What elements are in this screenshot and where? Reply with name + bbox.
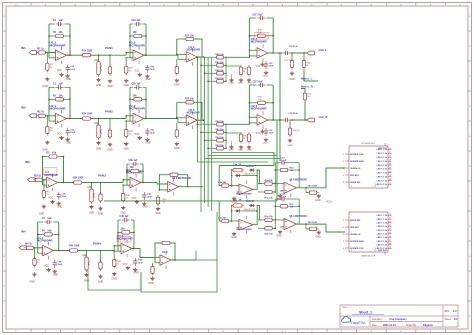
svg-text:10k: 10k [47, 230, 52, 233]
svg-text:C1F 10uF: C1F 10uF [252, 82, 263, 84]
svg-text:GND: GND [288, 145, 293, 147]
svg-text:Drawn By:: Drawn By: [406, 324, 417, 327]
svg-text:1uF: 1uF [59, 19, 64, 22]
svg-text:GND: GND [247, 150, 252, 152]
svg-text:10k: 10k [59, 31, 64, 34]
svg-text:10k: 10k [130, 166, 135, 169]
svg-text:GND: GND [155, 212, 161, 215]
svg-text:15: 15 [389, 167, 391, 169]
svg-text:LED 6 1.2k: LED 6 1.2k [377, 234, 388, 236]
svg-text:14: 14 [389, 229, 391, 231]
svg-text:PA1 10k: PA1 10k [216, 61, 225, 64]
svg-text:GND: GND [96, 84, 102, 87]
svg-text:MCP6004R: MCP6004R [187, 47, 201, 51]
svg-text:1k: 1k [308, 96, 310, 98]
svg-text:12: 12 [389, 221, 391, 223]
svg-text:PAN2: PAN2 [105, 110, 113, 114]
svg-text:2021-01-21: 2021-01-21 [383, 324, 396, 327]
svg-text:GND: GND [89, 212, 95, 215]
svg-text:VCC: VCC [122, 263, 127, 266]
svg-text:GND: GND [39, 213, 45, 216]
svg-text:3: 3 [343, 227, 344, 229]
svg-text:MCP6004R: MCP6004R [50, 107, 67, 111]
svg-text:U1.4 MCP6004R: U1.4 MCP6004R [290, 179, 308, 182]
svg-text:10uF: 10uF [150, 69, 156, 71]
svg-text:10uF: 10uF [269, 66, 275, 68]
svg-text:GND: GND [107, 149, 113, 152]
svg-text:U5.2 MCP6004R: U5.2 MCP6004R [236, 228, 252, 231]
svg-text:U3.3 MCP6004R: U3.3 MCP6004R [172, 177, 191, 180]
svg-text:2: 2 [53, 115, 54, 117]
svg-text:1k: 1k [243, 71, 245, 73]
svg-text:LED 4 1.2k: LED 4 1.2k [377, 160, 388, 163]
svg-text:DIVIDER LOW: DIVIDER LOW [350, 154, 363, 156]
svg-text:VCC: VCC [134, 133, 139, 136]
svg-text:TR3 100R: TR3 100R [308, 222, 318, 224]
svg-text:LED 10 1.2k: LED 10 1.2k [376, 184, 388, 186]
svg-text:6: 6 [343, 248, 344, 250]
svg-text:Out_R: Out_R [319, 115, 329, 119]
svg-text:3: 3 [131, 122, 132, 124]
svg-text:3: 3 [119, 252, 120, 254]
svg-text:C10 47uF: C10 47uF [289, 45, 299, 48]
svg-text:REF OUT: REF OUT [378, 250, 388, 252]
svg-text:10uF: 10uF [70, 132, 76, 134]
svg-text:C2b 1uF: C2b 1uF [132, 83, 142, 85]
svg-text:12: 12 [389, 156, 391, 158]
svg-text:TR3 100R: TR3 100R [308, 186, 318, 188]
svg-text:GND: GND [53, 274, 59, 277]
svg-text:GND: GND [30, 281, 36, 284]
svg-text:3: 3 [128, 186, 129, 188]
svg-text:DIVIDER LOW: DIVIDER LOW [350, 248, 363, 250]
svg-text:2.2uF: 2.2uF [281, 160, 287, 162]
svg-text:IN4: IN4 [21, 230, 26, 234]
svg-text:MCP6004R: MCP6004R [129, 107, 146, 111]
svg-text:2.2uF: 2.2uF [281, 196, 287, 198]
svg-text:SIGNAL IN: SIGNAL IN [350, 233, 361, 236]
svg-text:R3a 10k: R3a 10k [265, 216, 274, 218]
svg-text:R3b 10k: R3b 10k [265, 197, 274, 199]
svg-text:4: 4 [343, 168, 344, 170]
svg-text:2: 2 [41, 247, 42, 249]
svg-text:1/1: 1/1 [454, 318, 458, 321]
svg-text:RI1 1k: RI1 1k [37, 48, 44, 50]
svg-text:LED 4 1.2k: LED 4 1.2k [377, 225, 388, 228]
svg-text:GND: GND [84, 280, 90, 283]
svg-text:18: 18 [389, 179, 391, 181]
svg-text:VCC: VCC [48, 197, 53, 200]
svg-text:13: 13 [389, 160, 391, 162]
svg-text:R17 10k: R17 10k [185, 35, 194, 37]
svg-text:2: 2 [184, 116, 185, 118]
svg-text:10uF: 10uF [57, 264, 63, 266]
svg-text:PA3 10k: PA3 10k [216, 144, 225, 147]
svg-text:1k: 1k [243, 138, 245, 140]
svg-text:GND: GND [57, 206, 63, 209]
svg-text:10uF: 10uF [269, 133, 275, 135]
svg-text:VCC: VCC [57, 69, 62, 72]
svg-text:LED 2 1.2k: LED 2 1.2k [377, 219, 388, 221]
svg-text:11: 11 [389, 152, 391, 154]
svg-text:4: 4 [351, 186, 352, 188]
svg-text:2: 2 [343, 220, 344, 222]
svg-text:GND: GND [66, 142, 72, 145]
svg-text:U4Y7#: U4Y7# [118, 239, 126, 242]
svg-text:1.0: 1.0 [453, 310, 457, 313]
svg-text:R44 100R: R44 100R [69, 245, 80, 248]
svg-text:LED 3 1.2k: LED 3 1.2k [377, 157, 388, 159]
svg-text:PAN4: PAN4 [93, 242, 101, 246]
svg-text:3: 3 [184, 124, 185, 126]
svg-text:3: 3 [41, 254, 42, 256]
svg-text:19: 19 [389, 247, 391, 249]
svg-text:MODE SEL: MODE SEL [350, 182, 361, 184]
svg-text:GND: GND [315, 199, 321, 202]
svg-text:2: 2 [237, 185, 238, 187]
svg-text:2: 2 [128, 179, 129, 181]
svg-text:GND: GND [145, 142, 151, 145]
svg-text:R14 1k: R14 1k [293, 130, 299, 132]
svg-text:1uF: 1uF [47, 217, 52, 220]
svg-text:R24 100R: R24 100R [82, 113, 93, 116]
svg-text:Your Company: Your Company [389, 318, 407, 321]
svg-text:PA3 10k: PA3 10k [216, 77, 225, 80]
svg-text:DIVIDER HIGH: DIVIDER HIGH [350, 161, 364, 163]
svg-text:U7 LM3915N-1: U7 LM3915N-1 [361, 143, 376, 145]
svg-text:TITLE:: TITLE: [342, 307, 349, 309]
svg-text:10uF: 10uF [147, 196, 153, 198]
svg-text:17: 17 [389, 240, 391, 242]
svg-text:2: 2 [53, 51, 54, 53]
svg-text:DIVIDER HIGH: DIVIDER HIGH [350, 241, 364, 243]
svg-text:3: 3 [53, 59, 54, 61]
svg-text:GND: GND [148, 282, 154, 285]
svg-text:C10 47uF: C10 47uF [289, 112, 299, 115]
svg-text:1k: 1k [307, 65, 309, 67]
svg-text:PA2 10k: PA2 10k [216, 69, 225, 72]
svg-text:PA1 10k: PA1 10k [216, 128, 225, 131]
svg-text:4: 4 [343, 234, 344, 236]
svg-text:3: 3 [255, 124, 256, 126]
svg-text:2: 2 [131, 51, 132, 53]
svg-text:GND: GND [238, 83, 243, 85]
svg-text:3: 3 [184, 61, 185, 63]
svg-text:R34 100R: R34 100R [73, 177, 84, 180]
svg-text:5: 5 [343, 241, 344, 243]
svg-text:MCP6004R: MCP6004R [251, 107, 268, 111]
svg-text:2: 2 [255, 116, 256, 118]
svg-text:14: 14 [389, 164, 391, 166]
svg-text:3: 3 [255, 57, 256, 59]
svg-text:VCC: VCC [57, 133, 62, 136]
svg-text:LED 7 1.2k: LED 7 1.2k [377, 173, 388, 175]
svg-text:GND: GND [42, 149, 48, 152]
svg-text:11: 11 [374, 186, 376, 188]
svg-text:LED 9 1.2k: LED 9 1.2k [377, 180, 388, 182]
svg-text:15: 15 [389, 232, 391, 234]
svg-text:LED 8 1.2k: LED 8 1.2k [377, 176, 388, 178]
svg-text:MCP6004R: MCP6004R [251, 40, 268, 44]
svg-text:2: 2 [282, 184, 283, 186]
svg-text:Date:: Date: [372, 324, 378, 327]
svg-text:10: 10 [389, 214, 391, 216]
svg-text:11: 11 [389, 218, 391, 220]
svg-text:2: 2 [343, 154, 344, 156]
svg-text:LED 2 1.2k: LED 2 1.2k [377, 153, 388, 155]
svg-text:VCC+: VCC+ [326, 201, 333, 204]
svg-text:LED 9 1.2k: LED 9 1.2k [377, 245, 388, 247]
svg-text:10k: 10k [133, 31, 138, 34]
svg-text:GND: GND [263, 76, 268, 78]
svg-text:Out_L: Out_L [319, 48, 328, 52]
svg-text:MCP6004R: MCP6004R [187, 111, 201, 115]
svg-text:MODE SEL: MODE SEL [350, 220, 361, 222]
svg-text:GND: GND [229, 150, 234, 152]
svg-text:GND: GND [98, 281, 104, 284]
svg-text:GND: GND [289, 78, 295, 81]
svg-text:VCC: VCC [131, 197, 136, 200]
svg-text:SIGNAL IN: SIGNAL IN [350, 167, 361, 170]
svg-text:13: 13 [389, 225, 391, 227]
svg-text:GND: GND [174, 84, 180, 87]
svg-text:Edgaras: Edgaras [423, 324, 433, 327]
svg-text:U5.2 MCP6004R: U5.2 MCP6004R [236, 193, 252, 196]
svg-text:3: 3 [166, 190, 167, 192]
svg-text:3: 3 [282, 228, 283, 230]
svg-text:3: 3 [343, 161, 344, 163]
svg-text:10k: 10k [59, 95, 64, 98]
svg-text:GND: GND [121, 212, 127, 215]
svg-text:5: 5 [343, 175, 344, 177]
svg-text:Sheet_1: Sheet_1 [359, 310, 372, 314]
svg-text:IN2: IN2 [21, 106, 26, 110]
svg-text:Company:: Company: [372, 319, 383, 321]
svg-text:GND: GND [238, 150, 243, 152]
svg-text:2: 2 [237, 221, 238, 223]
svg-text:10: 10 [389, 148, 391, 150]
svg-text:6: 6 [343, 182, 344, 184]
svg-text:GND: GND [124, 84, 130, 87]
svg-text:LED 6 1.2k: LED 6 1.2k [377, 169, 388, 171]
svg-text:PAN1: PAN1 [105, 46, 113, 50]
svg-text:PA2 10k: PA2 10k [216, 136, 225, 139]
svg-text:IN1: IN1 [21, 46, 26, 50]
svg-text:2: 2 [119, 245, 120, 247]
svg-text:LED 3 1.2k: LED 3 1.2k [377, 223, 388, 225]
svg-text:U4.3: U4.3 [162, 250, 168, 254]
svg-text:GND: GND [231, 236, 237, 239]
svg-text:GND: GND [142, 206, 148, 209]
svg-text:GND: GND [42, 85, 48, 88]
svg-text:GND: GND [124, 148, 130, 151]
svg-text:VCC: VCC [255, 132, 260, 135]
svg-text:3: 3 [158, 264, 159, 266]
svg-text:3: 3 [45, 186, 46, 188]
svg-text:LED 7 1.2k: LED 7 1.2k [377, 237, 388, 239]
svg-text:RI3 1k: RI3 1k [34, 176, 41, 178]
svg-text:2: 2 [255, 49, 256, 51]
svg-text:EasyEDA: EasyEDA [351, 321, 367, 325]
svg-text:R27 10k: R27 10k [185, 99, 194, 101]
svg-text:VCC: VCC [134, 70, 139, 73]
svg-text:4: 4 [351, 250, 352, 252]
svg-text:C1F 10uF: C1F 10uF [252, 15, 263, 17]
svg-text:GND: GND [263, 143, 268, 145]
svg-text:1uF: 1uF [59, 82, 64, 85]
svg-text:MCP6004R: MCP6004R [44, 173, 58, 177]
svg-text:10uF: 10uF [150, 132, 156, 134]
svg-text:MCP6004R: MCP6004R [37, 239, 54, 243]
svg-text:C3b 1uF: C3b 1uF [129, 160, 139, 162]
svg-text:GND: GND [107, 85, 113, 88]
svg-text:C4b 1uF: C4b 1uF [120, 215, 130, 218]
svg-text:2: 2 [282, 220, 283, 222]
svg-text:10k: 10k [121, 228, 126, 231]
svg-text:10k: 10k [133, 95, 138, 98]
svg-text:18: 18 [389, 243, 391, 245]
svg-text:PA0 10k: PA0 10k [216, 120, 225, 123]
svg-text:GND: GND [96, 148, 102, 151]
svg-text:REF ADJ: REF ADJ [350, 174, 358, 177]
svg-text:LED 8 1.2k: LED 8 1.2k [377, 241, 388, 243]
svg-text:REF OUT: REF OUT [378, 148, 388, 150]
svg-text:LED 5 1.2k: LED 5 1.2k [377, 230, 388, 232]
svg-text:GND: GND [174, 147, 180, 150]
svg-text:Motor_R: Motor_R [301, 85, 314, 89]
svg-text:LED 1 1.2k: LED 1 1.2k [377, 215, 388, 217]
svg-text:REF ADJ: REF ADJ [350, 226, 358, 229]
svg-text:R14 100R: R14 100R [82, 49, 93, 52]
svg-text:10k: 10k [52, 152, 57, 155]
svg-text:3: 3 [131, 59, 132, 61]
svg-text:U1.4 MCP6004R: U1.4 MCP6004R [290, 215, 308, 218]
svg-text:GND: GND [66, 78, 72, 81]
svg-text:MCP6004R: MCP6004R [129, 43, 146, 47]
svg-text:MCP6004R: MCP6004R [50, 43, 67, 47]
svg-text:LED 5 1.2k: LED 5 1.2k [377, 165, 388, 167]
svg-text:VCC: VCC [255, 65, 260, 68]
svg-text:GND: GND [112, 278, 118, 281]
svg-text:GND: GND [229, 83, 234, 85]
svg-text:Sheet:: Sheet: [445, 318, 452, 321]
svg-text:R11 10k: R11 10k [285, 60, 292, 62]
svg-text:LM3915N-1 U8: LM3915N-1 U8 [361, 256, 376, 258]
svg-text:10uF: 10uF [138, 262, 144, 264]
svg-text:16: 16 [389, 236, 391, 238]
svg-text:PAN3: PAN3 [98, 174, 106, 178]
svg-text:RI2 1k: RI2 1k [37, 112, 44, 114]
svg-text:16: 16 [389, 171, 391, 173]
svg-text:19: 19 [389, 183, 391, 185]
svg-text:17: 17 [389, 175, 391, 177]
svg-text:GND: GND [98, 213, 104, 216]
svg-text:IN3: IN3 [25, 160, 30, 164]
svg-text:GND: GND [315, 235, 321, 238]
svg-text:10uF: 10uF [70, 69, 76, 71]
svg-text:C1b 1uF: C1b 1uF [132, 20, 142, 22]
svg-text:RI4 1k: RI4 1k [25, 243, 32, 246]
svg-text:2: 2 [184, 53, 185, 55]
svg-text:GND: GND [133, 272, 139, 275]
svg-text:10uF: 10uF [61, 196, 67, 198]
svg-text:REV:: REV: [445, 311, 451, 313]
svg-text:R3a 10k: R3a 10k [265, 180, 274, 182]
svg-text:GND: GND [145, 78, 151, 81]
svg-text:11: 11 [374, 250, 376, 252]
svg-text:Motor_L: Motor_L [301, 77, 313, 81]
svg-text:R3b 10k: R3b 10k [265, 234, 274, 236]
svg-text:2: 2 [131, 115, 132, 117]
svg-text:VCC: VCC [44, 265, 49, 268]
svg-text:PA0 10k: PA0 10k [216, 53, 225, 56]
svg-text:2: 2 [45, 179, 46, 181]
svg-text:2: 2 [166, 183, 167, 185]
svg-text:GND: GND [276, 235, 282, 238]
svg-text:3: 3 [53, 122, 54, 124]
